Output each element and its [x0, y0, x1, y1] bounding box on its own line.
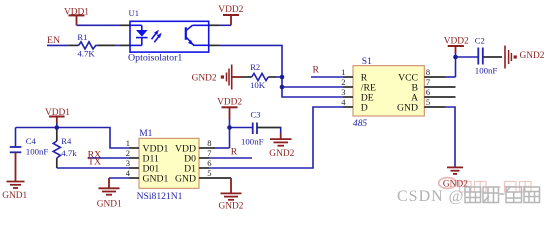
svg-text:VDD1: VDD1 — [64, 8, 89, 18]
svg-text:TX: TX — [88, 157, 101, 168]
svg-text:6: 6 — [426, 87, 430, 97]
svg-text:8: 8 — [426, 67, 430, 77]
svg-text:Optoisolator1: Optoisolator1 — [128, 53, 182, 64]
svg-text:GND1: GND1 — [97, 199, 122, 209]
svg-text:VDD1: VDD1 — [45, 108, 70, 118]
svg-text:C2: C2 — [475, 36, 485, 46]
svg-text:100nF: 100nF — [475, 65, 498, 75]
svg-text:6: 6 — [207, 158, 211, 168]
svg-text:S1: S1 — [362, 57, 372, 67]
svg-text:100nF: 100nF — [26, 147, 49, 157]
svg-text:R2: R2 — [250, 62, 260, 72]
svg-text:7: 7 — [426, 77, 430, 87]
svg-text:5: 5 — [207, 168, 211, 178]
svg-text:C3: C3 — [251, 110, 261, 120]
svg-text:7: 7 — [207, 148, 211, 158]
svg-text:2: 2 — [126, 148, 130, 158]
svg-text:R: R — [231, 147, 238, 158]
svg-text:R: R — [313, 65, 320, 76]
svg-text:10K: 10K — [250, 80, 266, 90]
svg-text:C4: C4 — [26, 136, 37, 146]
svg-text:GND2: GND2 — [269, 149, 294, 159]
svg-text:3: 3 — [126, 158, 130, 168]
svg-text:1: 1 — [341, 67, 345, 77]
svg-text:D: D — [361, 102, 368, 113]
svg-text:R4: R4 — [61, 136, 72, 146]
svg-text:EN: EN — [47, 35, 60, 46]
svg-text:3: 3 — [341, 87, 345, 97]
svg-text:4.7k: 4.7k — [61, 148, 77, 158]
svg-text:VDD2: VDD2 — [444, 36, 469, 46]
svg-text:U1: U1 — [129, 8, 140, 18]
svg-text:CSDN @: CSDN @ — [397, 188, 464, 205]
svg-text:GND1: GND1 — [2, 191, 27, 201]
svg-text:5: 5 — [426, 97, 430, 107]
svg-text:GND: GND — [397, 102, 418, 113]
svg-text:NSi8121N1: NSi8121N1 — [137, 191, 183, 202]
svg-text:485: 485 — [353, 119, 367, 129]
svg-text:GND1: GND1 — [143, 173, 169, 184]
svg-text:8: 8 — [207, 138, 211, 148]
svg-text:GND2: GND2 — [520, 51, 545, 61]
svg-text:VDD2: VDD2 — [217, 98, 242, 108]
svg-text:GND2: GND2 — [219, 201, 244, 211]
svg-text:M1: M1 — [139, 129, 152, 139]
svg-text:4.7K: 4.7K — [77, 49, 95, 59]
svg-text:1: 1 — [126, 138, 130, 148]
svg-text:R1: R1 — [77, 32, 87, 42]
svg-text:VDD2: VDD2 — [218, 5, 243, 15]
svg-text:2: 2 — [341, 77, 345, 87]
svg-text:GND2: GND2 — [192, 73, 217, 83]
svg-text:GND: GND — [175, 173, 196, 184]
svg-text:100nF: 100nF — [241, 136, 264, 146]
